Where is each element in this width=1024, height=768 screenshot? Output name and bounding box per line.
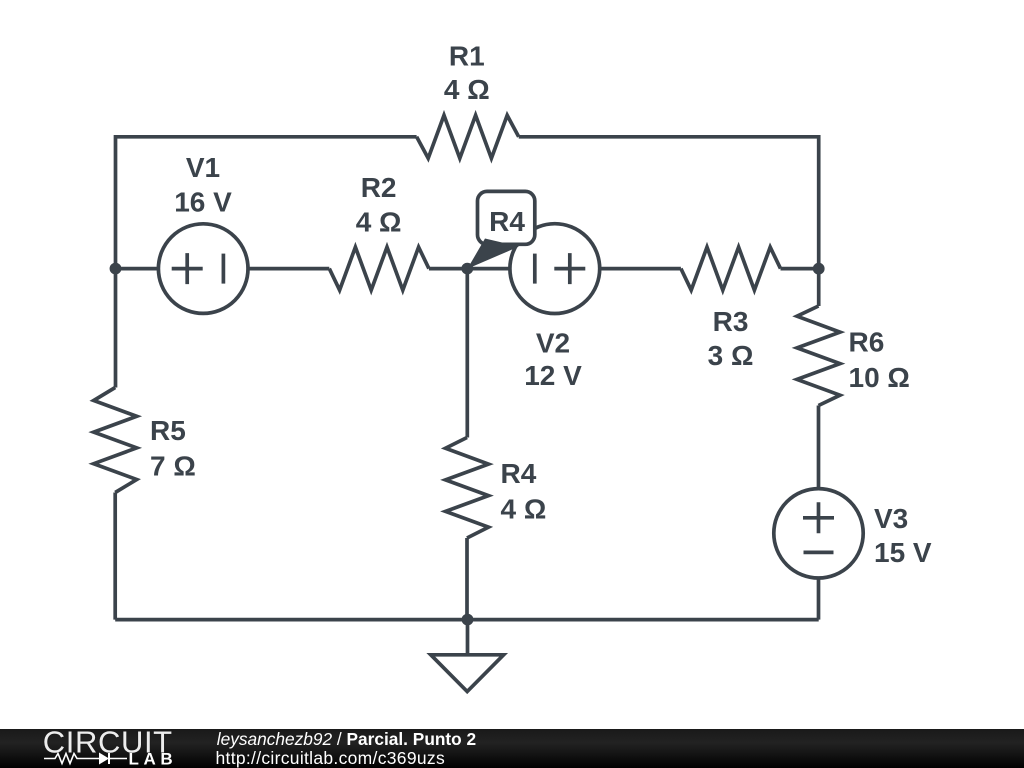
svg-text:4 Ω: 4 Ω [444, 74, 490, 105]
value label R6 10 Ω [849, 362, 910, 393]
label R6 [849, 327, 885, 358]
resistor R2 [329, 247, 429, 290]
label V3 [874, 503, 908, 534]
wire: bottom rail [115, 618, 819, 622]
voltage source V2 [510, 224, 600, 314]
svg-text:4 Ω: 4 Ω [501, 493, 547, 524]
footer title line [217, 729, 476, 749]
wire: centre node down to R4 [465, 269, 469, 438]
voltage source V1 [158, 224, 248, 314]
callout bubble R4 [467, 191, 534, 268]
CircuitLab logo resistor-diode squiggle [44, 753, 127, 765]
label V2 [536, 327, 570, 358]
value label R3 3 Ω [708, 340, 754, 371]
svg-text:V1: V1 [186, 152, 220, 183]
resistor R6 [797, 306, 840, 406]
svg-text:R5: R5 [150, 415, 186, 446]
resistor R1 [417, 115, 519, 158]
wire: V2 to R3 [600, 267, 681, 271]
CircuitLab logo wordmark CIRCUIT [43, 725, 173, 760]
resistor R3 [681, 247, 781, 290]
wire: R4 down to bottom node [465, 538, 469, 620]
label R2 [361, 172, 397, 203]
svg-text:R3: R3 [713, 306, 749, 337]
node at left rail [110, 263, 122, 275]
footer bar [0, 729, 1024, 768]
ground [431, 620, 504, 692]
wire: left node down to R5 [114, 269, 118, 388]
value label R1 4 Ω [444, 74, 490, 105]
value label V1 16 V [174, 187, 232, 218]
svg-text:leysanchezb92 / Parcial. Punto: leysanchezb92 / Parcial. Punto 2 [217, 729, 476, 749]
value label V2 12 V [524, 360, 582, 391]
wire: right node down to R6 [817, 269, 821, 306]
svg-text:R4: R4 [489, 206, 525, 237]
svg-text:12 V: 12 V [524, 360, 582, 391]
label V1 [186, 152, 220, 183]
wire: top-left from left node up and across to R1 [116, 137, 417, 269]
svg-text:R6: R6 [849, 327, 885, 358]
wire: V1 to R2 [248, 267, 329, 271]
svg-text:http://circuitlab.com/c369uzs: http://circuitlab.com/c369uzs [216, 748, 446, 768]
wire: R2 to centre node [429, 267, 467, 271]
svg-text:R1: R1 [449, 41, 485, 72]
svg-text:LAB: LAB [129, 749, 178, 768]
svg-text:V3: V3 [874, 503, 908, 534]
wire: V3 down to bottom rail [817, 578, 821, 620]
svg-text:R4: R4 [501, 458, 537, 489]
svg-text:R2: R2 [361, 172, 397, 203]
node at centre [461, 263, 473, 275]
resistor R5 [94, 388, 137, 493]
voltage source V3 [774, 489, 863, 578]
footer url line [216, 748, 446, 768]
svg-text:10 Ω: 10 Ω [849, 362, 910, 393]
wire: R3 to right node [781, 267, 819, 271]
value label R2 4 Ω [356, 206, 402, 237]
resistor R4 [446, 438, 489, 539]
CircuitLab logo wordmark LAB [129, 749, 178, 768]
wire: R1 right across and down to right node [519, 137, 819, 269]
value label R4 4 Ω [501, 493, 547, 524]
svg-text:7 Ω: 7 Ω [150, 450, 196, 481]
wire: R6 down to V3 [817, 406, 821, 489]
value label R5 7 Ω [150, 450, 196, 481]
node at bottom rail [462, 614, 474, 626]
svg-text:V2: V2 [536, 327, 570, 358]
svg-text:4 Ω: 4 Ω [356, 206, 402, 237]
label R1 [449, 41, 485, 72]
wire: left node to V1 [116, 267, 159, 271]
node at right rail [813, 263, 825, 275]
label R5 [150, 415, 186, 446]
wire: centre node to V2 [467, 267, 510, 271]
svg-text:3 Ω: 3 Ω [708, 340, 754, 371]
label R4 (resistor) [501, 458, 537, 489]
svg-text:15 V: 15 V [874, 537, 932, 568]
label R3 [713, 306, 749, 337]
value label V3 15 V [874, 537, 932, 568]
svg-text:16 V: 16 V [174, 187, 232, 218]
wire: R5 down to bottom-left corner [113, 493, 117, 620]
